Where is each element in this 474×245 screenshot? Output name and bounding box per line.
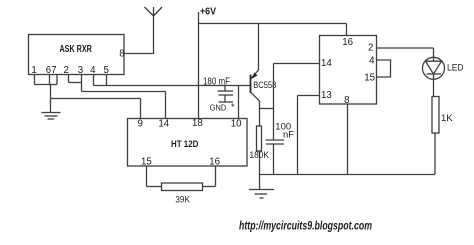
svg-text:1K: 1K bbox=[441, 113, 453, 124]
svg-text:16: 16 bbox=[342, 37, 353, 48]
svg-text:39K: 39K bbox=[175, 194, 190, 205]
svg-text:5: 5 bbox=[104, 65, 109, 76]
svg-text:8: 8 bbox=[344, 95, 349, 106]
svg-text:GND: GND bbox=[210, 103, 227, 113]
svg-text:13: 13 bbox=[321, 90, 332, 101]
svg-text:4: 4 bbox=[369, 56, 375, 67]
svg-text:nF: nF bbox=[283, 129, 294, 140]
svg-text:8: 8 bbox=[119, 49, 124, 60]
svg-text:LED: LED bbox=[447, 63, 464, 74]
svg-text:http://mycircuits9.blogspot.co: http://mycircuits9.blogspot.com bbox=[239, 218, 372, 232]
svg-text:4: 4 bbox=[90, 65, 96, 76]
svg-text:14: 14 bbox=[321, 58, 332, 69]
svg-text:1: 1 bbox=[31, 65, 36, 76]
svg-text:9: 9 bbox=[138, 118, 143, 129]
svg-text:3: 3 bbox=[78, 65, 83, 76]
svg-text:2: 2 bbox=[64, 65, 69, 76]
svg-text:10: 10 bbox=[231, 118, 242, 129]
svg-text:7: 7 bbox=[51, 65, 56, 76]
svg-text:*: * bbox=[231, 102, 235, 112]
svg-text:14: 14 bbox=[158, 118, 169, 129]
svg-text:18: 18 bbox=[192, 118, 203, 129]
svg-text:BC558: BC558 bbox=[253, 80, 276, 90]
svg-text:16: 16 bbox=[209, 157, 220, 168]
svg-text:15: 15 bbox=[141, 157, 152, 168]
svg-text:15: 15 bbox=[364, 73, 375, 84]
svg-text:+6V: +6V bbox=[200, 7, 216, 18]
svg-text:HT 12D: HT 12D bbox=[171, 139, 198, 149]
svg-text:180 mF: 180 mF bbox=[203, 77, 230, 88]
svg-text:180K: 180K bbox=[250, 150, 270, 161]
svg-text:2: 2 bbox=[368, 43, 373, 54]
svg-text:ASK RXR: ASK RXR bbox=[60, 44, 92, 55]
